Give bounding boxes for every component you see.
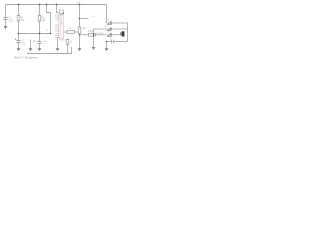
- wire rail right corner down: [106, 5, 108, 24]
- node B dot: [39, 33, 41, 35]
- node dot x56.5: [56, 4, 58, 6]
- IC pin numbers outside: [46, 30, 49, 36]
- capacitor C2 plus mark: [15, 38, 17, 40]
- capacitor C6: [112, 40, 114, 43]
- wire D3 to speaker: [112, 34, 121, 36]
- svg-text:10k: 10k: [42, 20, 47, 22]
- node dot x106.5 low: [106, 41, 108, 43]
- wire IC bottom to ground: [57, 38, 59, 48]
- wire rail to R2: [39, 5, 41, 16]
- resistor R1: [17, 15, 20, 21]
- IC pin stubs left lower: [55, 25, 59, 38]
- resistor R3 horizontal: [67, 31, 75, 34]
- wire x56.5 to IC top: [57, 5, 60, 13]
- diode D1: [107, 21, 111, 25]
- svg-text:D2: D2: [105, 26, 109, 28]
- resistor R5 horizontal: [89, 34, 96, 37]
- svg-text:22n: 22n: [33, 41, 38, 43]
- ground (IC): [56, 49, 59, 51]
- ground (right): [105, 49, 108, 51]
- wire node A down to C2: [18, 34, 20, 41]
- svg-text:100k: 100k: [88, 31, 94, 33]
- wire node to R5: [80, 34, 89, 36]
- svg-text:4060: 4060: [60, 40, 66, 42]
- svg-text:10k: 10k: [21, 20, 26, 22]
- node dot R2 top: [39, 4, 41, 6]
- wire C2 to ground: [18, 43, 20, 49]
- wire R2 to node B: [39, 21, 41, 34]
- resistor R2: [38, 15, 41, 21]
- IC top box: [59, 10, 63, 14]
- wire IC right pin to R3: [64, 31, 68, 33]
- svg-text:Bild 4.7: Blinkgeber: Bild 4.7: Blinkgeber: [15, 56, 38, 60]
- svg-text:BC548: BC548: [97, 33, 104, 35]
- svg-text:R5: R5: [69, 28, 73, 30]
- wire y29 to D2: [94, 28, 107, 30]
- wire tap right: [80, 18, 89, 20]
- wire bottom loop: [114, 41, 128, 43]
- wire x46.5 down and over: [47, 5, 51, 34]
- wire IC bottom right to R6: [67, 39, 69, 40]
- capacitor C2: [17, 41, 21, 43]
- svg-text:12: 12: [46, 34, 49, 36]
- wire bottom rail: [27, 47, 72, 54]
- ground (x93.8): [92, 48, 95, 50]
- wire vertical x93.8 node: [93, 29, 95, 47]
- wire R4 to ground: [79, 34, 81, 49]
- wire C4 to ground: [39, 44, 41, 49]
- svg-text:C5: C5: [8, 18, 12, 20]
- svg-text:C6: C6: [110, 38, 114, 40]
- wire R3 to R4: [75, 31, 79, 33]
- node dot tap: [79, 18, 81, 20]
- node dot R1 top: [18, 4, 20, 6]
- svg-text:D1: D1: [107, 20, 111, 22]
- diode D3: [107, 33, 111, 37]
- capacitor C1: [4, 18, 8, 20]
- wire R1 to node A: [18, 21, 20, 34]
- svg-text:R1: R1: [21, 17, 25, 19]
- diode D2: [107, 27, 111, 31]
- ground (R4): [78, 49, 81, 51]
- svg-text:4k7: 4k7: [82, 28, 86, 30]
- wire x106.5 to ground: [106, 42, 108, 49]
- ground (C4): [38, 49, 41, 51]
- svg-text:+9V: +9V: [76, 2, 81, 4]
- wire left drop to C1: [5, 5, 7, 18]
- node dot x79.5 rail: [79, 4, 81, 6]
- node dot x46.5: [46, 4, 48, 6]
- capacitor C4: [38, 42, 42, 44]
- svg-text:C2: C2: [21, 41, 25, 43]
- ground (C1): [4, 27, 7, 29]
- svg-text:1k: 1k: [70, 42, 73, 44]
- svg-text:13: 13: [46, 30, 49, 32]
- IC pin stubs left upper: [55, 15, 59, 19]
- wire R6 to bottom rail: [67, 45, 69, 54]
- wire right loop vertical: [127, 23, 129, 42]
- IC U1 body: [59, 14, 64, 38]
- wire C6 left to x106.5: [107, 41, 112, 43]
- svg-text:100n: 100n: [8, 20, 14, 22]
- node dot x93.8: [93, 34, 95, 36]
- wire D2 right: [112, 28, 128, 30]
- node dot bus end: [50, 33, 52, 35]
- wire rail to R1: [18, 5, 20, 16]
- resistor R4 vertical: [78, 27, 81, 34]
- ground (C2): [17, 49, 20, 51]
- capacitor C3: [29, 49, 32, 51]
- node A dot: [18, 33, 20, 35]
- wire branch x30.5 from bus: [30, 40, 32, 49]
- wire C1 to ground: [5, 20, 7, 27]
- svg-text:out: out: [92, 15, 95, 18]
- svg-text:10u: 10u: [21, 43, 26, 45]
- wire top V+ rail: [6, 4, 107, 6]
- svg-text:10u: 10u: [43, 41, 48, 43]
- svg-text:R2: R2: [42, 17, 46, 19]
- wire R5 right to D3 row: [96, 34, 107, 36]
- wire node B down to C4: [39, 34, 41, 42]
- svg-text:D3: D3: [107, 32, 111, 34]
- wire rail down to R4: [79, 5, 81, 28]
- wire bus node A right: [19, 33, 51, 35]
- wire D1 right: [112, 22, 128, 24]
- IC pin names: [60, 15, 63, 39]
- speaker LS1: [120, 32, 121, 35]
- resistor R6 vertical: [66, 40, 69, 45]
- node dot below R4: [79, 34, 81, 36]
